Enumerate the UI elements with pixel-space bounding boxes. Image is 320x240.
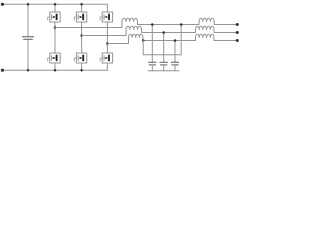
wire phase B lead [82,30,126,36]
node phase B output terminal [236,31,239,34]
node phase C output terminal [236,39,239,42]
inductor L6 (phase C, grid side) [196,34,214,37]
inductor L4 (phase A, grid side) [199,18,214,21]
transistor Q4 (bottom, phase B) [74,53,87,63]
node link tap on phase A [180,23,183,26]
wire top DC rail [2,3,107,5]
capacitor C4 (phase C shunt) [171,62,179,65]
transistor Q3 (top, phase B) [74,12,87,22]
transistor Q5 (top, phase C) [100,12,113,22]
inductor L5 (phase B, grid side) [196,26,214,29]
wire phase A middle [138,22,200,25]
wire leg3 midpoint vertical [106,22,108,53]
capacitor C2 (phase A shunt) [149,62,157,65]
wire leg2 midpoint vertical [81,22,83,53]
inductor L1 (phase A, inverter side) [122,18,138,21]
wire shunt cap C vertical [174,41,176,63]
wire leg1 source lead [54,63,56,70]
capacitor C1 (DC link) [22,37,33,39]
transistor Q6 (bottom, phase C) [100,53,113,63]
node junction leg2 top rail [80,3,83,6]
wire leg3 source lead [106,63,108,70]
wire bottom DC rail [2,69,107,71]
wire cap A bottom stub [151,65,153,71]
wire leg2 source lead [81,63,83,70]
node junction leg1 bottom rail [54,69,57,72]
transistor Q1 (top, phase A) [48,12,60,22]
node junction C1 bottom [27,69,30,72]
inductor L2 (phase B, inverter side) [126,26,142,29]
wire phase A lead [55,22,122,28]
node junction C1 top [27,3,30,6]
wire DC-link lower [27,39,29,70]
wire shunt cap A vertical [151,25,153,63]
wire DC-link upper [27,4,29,37]
transistor Q2 (bottom, phase A) [48,53,60,63]
wire phase C output [214,38,237,41]
wire leg1 midpoint vertical [54,22,56,53]
node phase C midpoint [106,42,109,45]
capacitor C3 (phase B shunt) [160,62,168,65]
node phase B midpoint [80,34,83,37]
wire link riser to phase A [180,25,182,55]
wire link drop from phase C [142,41,144,55]
wire phase B output [214,30,237,33]
node junction leg2 bottom rail [80,69,83,72]
node junction cap C on phase C [174,39,177,42]
node junction cap B on phase B [162,31,165,34]
wire phase C lead [107,38,128,44]
node junction leg1 top rail [54,3,57,6]
node DC+ input terminal [1,3,4,6]
node junction cap A on phase A [151,23,154,26]
node phase A output terminal [236,23,239,26]
wire leg2 drain lead [81,4,83,12]
node phase A midpoint [54,26,57,29]
node link tap on phase C [142,39,145,42]
wire shunt cap B vertical [163,33,165,63]
wire leg3 drain lead [106,4,108,12]
wire link horizontal run [143,54,181,56]
wire cap C bottom stub [174,65,176,71]
inductor L3 (phase C, inverter side) [129,34,143,37]
wire phase B middle [142,30,196,33]
wire leg1 drain lead [54,4,56,12]
wire cap B bottom stub [163,65,165,71]
wire capacitor star-point bus [148,70,179,72]
wire phase C middle [143,38,196,41]
wire phase A output [214,22,237,25]
node DC- input terminal [1,69,4,72]
